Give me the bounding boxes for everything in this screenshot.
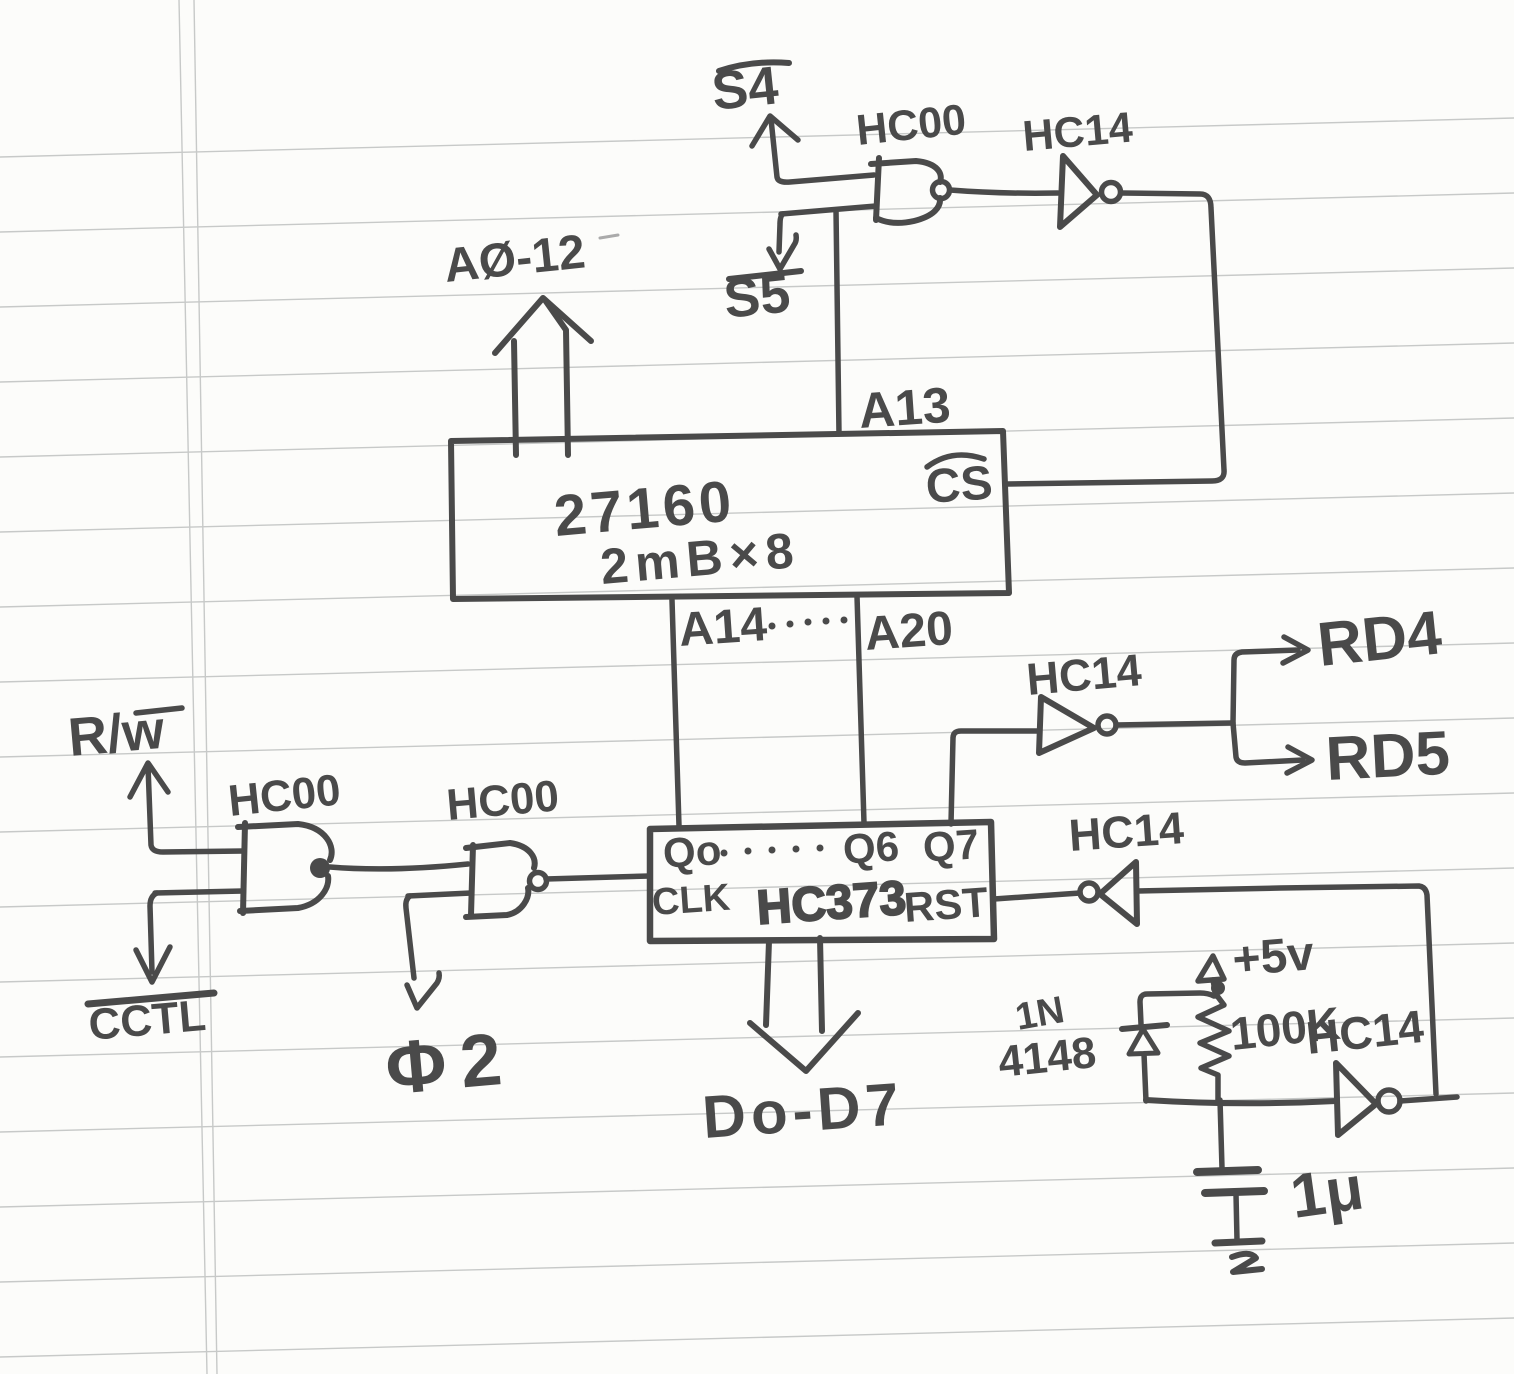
svg-text:CLK: CLK xyxy=(651,877,732,924)
power +5V arrow xyxy=(1198,956,1225,996)
NAND gate U1 HC00 label xyxy=(854,96,968,155)
wire CLK input xyxy=(546,876,650,879)
NAND gate U4b xyxy=(466,843,547,917)
pin label CS xyxy=(924,455,994,514)
wire RST input xyxy=(994,893,1080,899)
net A0-12 label xyxy=(442,225,588,292)
net +5V label xyxy=(1230,927,1316,987)
wire RD5 arrow xyxy=(1233,723,1312,773)
svg-text:Q7: Q7 xyxy=(921,820,980,871)
value label 1N4148 xyxy=(996,989,1098,1087)
ROM 27160 box xyxy=(451,431,1009,599)
wire Q7 to inverter U5 xyxy=(951,731,1038,824)
diode D1 1N4148 xyxy=(1122,1025,1167,1101)
wire S4 arrow xyxy=(752,116,874,182)
wire cap lead xyxy=(1220,1100,1222,1168)
pin label A13 xyxy=(857,377,952,439)
net R/W label xyxy=(66,700,182,768)
bus arrow A0-12 xyxy=(495,298,591,455)
net RD4 label xyxy=(1314,598,1445,680)
inverter U5 xyxy=(1039,697,1116,753)
wire U4a input 2 xyxy=(155,891,243,893)
svg-text:4148: 4148 xyxy=(996,1028,1098,1087)
svg-text:RD5: RD5 xyxy=(1324,719,1451,794)
wire RD4 arrow xyxy=(1233,637,1308,723)
bus arrow D0-D7 xyxy=(750,938,858,1071)
value label 27160 xyxy=(551,468,737,549)
wire U4b input 2 xyxy=(408,893,471,896)
svg-text:Φ2: Φ2 xyxy=(382,1016,519,1110)
svg-text:HC14: HC14 xyxy=(1067,802,1185,861)
wire A13 vertical xyxy=(836,210,839,434)
capacitor C1 xyxy=(1197,1170,1264,1193)
NAND gate U4b HC00 label xyxy=(445,771,561,830)
net S4 label xyxy=(709,55,789,122)
value label 100K xyxy=(1228,997,1343,1060)
part label HC373 xyxy=(755,872,908,935)
wire U5 output junction xyxy=(1116,723,1231,725)
pin label Q7 xyxy=(921,820,980,871)
net label A20 xyxy=(863,602,955,661)
wire A20 bus xyxy=(857,596,864,823)
inverter U7 HC14 label xyxy=(1304,1000,1427,1064)
svg-text:+5v: +5v xyxy=(1230,927,1316,987)
wire U2 output to CS pin xyxy=(1008,193,1224,484)
inverter U2 HC14 label xyxy=(1021,104,1135,161)
wire +5V to diode xyxy=(1140,993,1214,1024)
wire U1 to U2 xyxy=(950,190,1058,193)
net PHI2 label xyxy=(382,1016,519,1110)
inverter U5 HC14 label xyxy=(1024,644,1143,705)
svg-text:A13: A13 xyxy=(857,377,952,439)
value label 1uF xyxy=(1286,1153,1367,1231)
net RD5 label xyxy=(1324,719,1451,794)
wire RC node xyxy=(1146,1100,1336,1103)
resistor R1 100K xyxy=(1198,993,1229,1100)
svg-text:Do-D7: Do-D7 xyxy=(700,1070,906,1151)
NAND gate U4a xyxy=(238,823,332,913)
wire A14 bus xyxy=(672,600,679,826)
net CCTL label xyxy=(87,991,214,1050)
net S5 label xyxy=(721,263,801,330)
inverter U6 (points left) xyxy=(1080,862,1137,924)
wire CCTL arrow xyxy=(136,893,170,982)
wire U1 input 2 / node A13 top xyxy=(781,206,876,214)
NAND gate U4a HC00 label xyxy=(226,765,343,825)
svg-text:CCTL: CCTL xyxy=(87,991,208,1050)
svg-text:HC14: HC14 xyxy=(1021,104,1135,161)
svg-text:Q6: Q6 xyxy=(841,822,900,873)
svg-text:Qo: Qo xyxy=(661,826,722,877)
pin dots Q1-Q5 xyxy=(721,845,824,857)
net D0-D7 label xyxy=(700,1070,906,1151)
inverter U2 xyxy=(1060,156,1121,227)
wire PHI2 arrow xyxy=(406,896,439,1008)
pin label Q6 xyxy=(841,822,900,873)
inverter U7 xyxy=(1336,1063,1400,1135)
wire U7 output xyxy=(1400,1097,1457,1101)
svg-text:RST: RST xyxy=(902,878,989,931)
latch U3 HC373 box xyxy=(650,822,994,941)
svg-text:A20: A20 xyxy=(863,602,955,661)
wire S5 arrow xyxy=(769,214,796,269)
wire R/W arrow xyxy=(130,763,244,852)
pin label RST xyxy=(902,878,989,931)
svg-text:HC373: HC373 xyxy=(755,872,908,935)
inverter U6 HC14 label xyxy=(1067,802,1185,861)
wire U4a to U4b xyxy=(330,864,468,869)
NAND gate U1 xyxy=(871,158,950,223)
svg-text:RD4: RD4 xyxy=(1314,598,1445,680)
svg-text:HC00: HC00 xyxy=(445,771,561,830)
value label 2mB x 8 xyxy=(598,522,803,595)
svg-text:A14: A14 xyxy=(677,598,769,657)
wire U6 input from U7 output xyxy=(1137,886,1436,1094)
pin label Q0 xyxy=(661,826,722,877)
svg-text:1μ: 1μ xyxy=(1286,1153,1367,1231)
net label A14 xyxy=(677,598,769,657)
ground xyxy=(1215,1241,1262,1272)
wire cap to ground xyxy=(1236,1194,1237,1240)
bus dots xyxy=(769,617,848,630)
pin label CLK xyxy=(651,877,732,924)
